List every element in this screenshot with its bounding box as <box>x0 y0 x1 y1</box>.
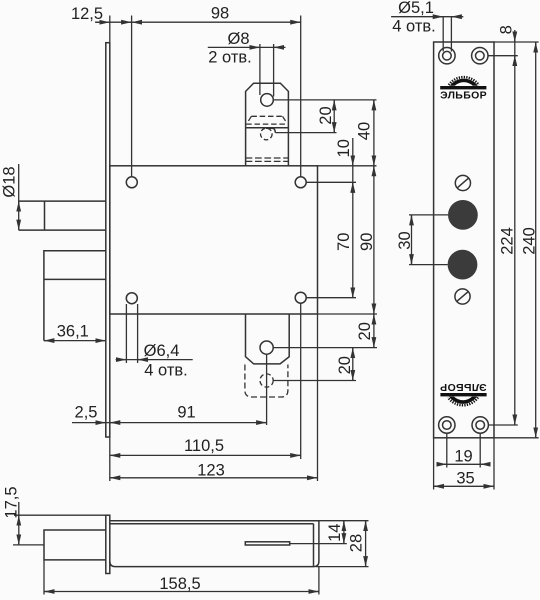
dim 17,5 <box>18 502 20 545</box>
svg-text:10: 10 <box>335 139 353 157</box>
dim 19 ext lines <box>446 434 448 468</box>
latch hidden outline dashed <box>247 116 287 123</box>
screw hole top-left <box>126 177 137 188</box>
faceplate outline <box>434 42 494 438</box>
right ext: top hole line <box>306 181 356 183</box>
svg-text:110,5: 110,5 <box>184 437 224 455</box>
case inner top line <box>110 523 314 525</box>
dim 30 ext lines <box>409 214 448 216</box>
dim 35 ext lines <box>433 438 435 490</box>
lock case outline <box>110 521 319 567</box>
deadbolt block <box>44 251 106 341</box>
bottom hidden housing dashed <box>245 365 288 398</box>
bottom hidden hole dashed circle <box>260 374 273 387</box>
svg-text:19: 19 <box>454 447 472 465</box>
svg-text:2,5: 2,5 <box>75 404 98 422</box>
bolt side view <box>44 530 106 560</box>
dim 40 col3 <box>373 100 375 166</box>
faceplate strip side <box>106 515 110 573</box>
svg-text:158,5: 158,5 <box>159 575 200 593</box>
round bolt o18 <box>19 201 106 230</box>
o5,1 ext lines <box>442 17 444 52</box>
dim 70 col2 <box>352 182 354 298</box>
dim 20a col3 <box>373 314 375 348</box>
svg-text:90: 90 <box>358 233 376 251</box>
keeper inner solid line <box>246 127 289 129</box>
top keeper hole (o8) <box>261 94 274 107</box>
ext line left hole column <box>131 16 133 177</box>
keyhole black circle 1 <box>448 200 478 230</box>
svg-text:12,5: 12,5 <box>71 5 103 23</box>
svg-text:123: 123 <box>197 461 225 479</box>
ELBOR logo bottom (rotated) <box>440 381 487 405</box>
ext line right hole column <box>300 16 302 177</box>
o6,4 ext lines <box>125 304 127 363</box>
158,5 ext lines <box>43 560 45 595</box>
svg-text:20: 20 <box>356 322 374 340</box>
dim 10 col2 (outside arrows) <box>352 138 354 192</box>
dim 224 <box>514 56 516 425</box>
lock body rectangle <box>110 166 318 314</box>
ELBOR logo top <box>440 77 487 101</box>
o8 ext lines <box>259 44 261 95</box>
right ext: body top <box>318 165 377 167</box>
dim 14 <box>343 521 345 544</box>
bottom keeper hole <box>260 341 273 354</box>
dim 19 (outside arrows) <box>437 463 490 465</box>
right ext: body bottom <box>318 313 378 315</box>
svg-text:2 отв.: 2 отв. <box>208 49 251 67</box>
right ext: keeper hole line <box>273 99 376 101</box>
svg-text:20: 20 <box>336 356 354 374</box>
faceplate strip edge view <box>106 43 110 437</box>
dim line 2,5 / 91 <box>72 422 267 424</box>
dim o6,4 4 otv <box>116 359 193 361</box>
dim line o8 <box>208 46 286 48</box>
svg-text:Ø8: Ø8 <box>227 30 249 48</box>
bottom-right screw hole <box>472 417 488 433</box>
center ext line from bottom keeper hole <box>266 354 268 425</box>
top-right screw hole <box>472 48 488 64</box>
svg-text:40: 40 <box>356 122 374 140</box>
dim 20b col2 <box>352 348 354 381</box>
screw top <box>455 175 470 190</box>
lever slot <box>245 542 289 545</box>
svg-text:30: 30 <box>396 231 414 249</box>
svg-text:4 отв.: 4 отв. <box>392 18 435 36</box>
case inner right line <box>313 524 315 566</box>
svg-text:Ø5,1: Ø5,1 <box>398 0 434 17</box>
right ext lines <box>319 520 369 522</box>
dim line 110,5 <box>110 454 301 456</box>
svg-text:28: 28 <box>348 534 366 552</box>
screw hole bottom-right <box>295 292 306 303</box>
dim line 12,5 / 98 <box>95 21 301 23</box>
dim 36,1 <box>44 340 106 342</box>
svg-text:240: 240 <box>521 227 539 255</box>
bottom ext lines <box>105 427 107 438</box>
slot ext line <box>290 543 347 545</box>
svg-text:70: 70 <box>335 233 353 251</box>
svg-text:8: 8 <box>497 25 515 34</box>
dim line 123 <box>110 477 318 479</box>
keyhole black circle 2 <box>448 250 478 280</box>
dim 35 <box>434 485 494 487</box>
svg-text:35: 35 <box>456 470 474 488</box>
keeper hidden slot dashed rows <box>246 157 289 159</box>
svg-text:36,1: 36,1 <box>57 322 89 340</box>
svg-text:ЭЛЬБОР: ЭЛЬБОР <box>440 89 487 101</box>
dim 240 <box>535 42 537 438</box>
right ext: bottom keeper hole line <box>273 347 377 349</box>
svg-text:98: 98 <box>211 4 229 22</box>
bottom-left screw hole <box>439 417 455 433</box>
svg-text:Ø6,4: Ø6,4 <box>144 342 180 360</box>
top keeper piece <box>246 83 289 166</box>
dim 8 (outside arrows) <box>514 30 516 65</box>
dim 30 <box>411 215 413 265</box>
17,5 ext lines <box>14 514 106 516</box>
svg-text:224: 224 <box>499 227 517 255</box>
screw hole top-right <box>295 177 306 188</box>
right ext: bottom hole line <box>306 297 356 299</box>
svg-text:17,5: 17,5 <box>2 486 20 518</box>
ext line body-left column <box>109 16 111 43</box>
dim 158,5 <box>44 591 319 593</box>
svg-text:20: 20 <box>317 106 335 124</box>
dim o18 <box>18 164 20 230</box>
dim 28 <box>365 521 367 567</box>
svg-text:14: 14 <box>326 524 344 542</box>
right ext: notch line <box>275 132 336 134</box>
dim 90 col3 <box>373 166 375 314</box>
svg-text:Ø18: Ø18 <box>1 166 19 197</box>
svg-text:4 отв.: 4 отв. <box>144 361 187 379</box>
right ext lines <box>494 41 539 43</box>
right ext: bottom dashed hole line <box>273 380 356 382</box>
dim o5,1 4 otv <box>391 16 463 18</box>
top-left screw hole <box>439 48 455 64</box>
key notch tab <box>266 128 275 132</box>
hidden cylinder hole dashed circle <box>261 128 273 140</box>
svg-text:91: 91 <box>177 404 195 422</box>
screw bottom <box>455 289 470 304</box>
bottom keeper piece <box>246 314 290 364</box>
dim 20 col1 <box>333 100 335 133</box>
screw hole bottom-left <box>126 293 137 304</box>
